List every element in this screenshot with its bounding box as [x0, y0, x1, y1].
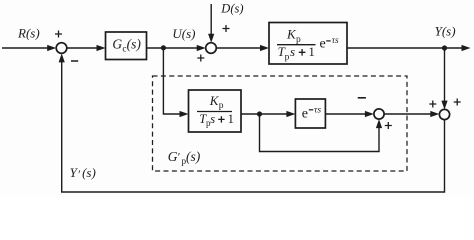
svg-text:′: ′ [78, 167, 81, 181]
svg-text:D(s): D(s) [220, 1, 243, 15]
svg-text:(s): (s) [186, 149, 201, 164]
svg-text:Y(s): Y(s) [435, 24, 456, 39]
svg-text:G: G [112, 37, 122, 52]
svg-text:e: e [320, 36, 326, 51]
svg-text:1: 1 [308, 44, 315, 59]
svg-text:τs: τs [332, 36, 339, 46]
svg-text:τs: τs [314, 105, 321, 115]
svg-text:p: p [296, 35, 301, 45]
svg-text:′: ′ [178, 150, 181, 164]
svg-text:R(s): R(s) [17, 26, 40, 41]
svg-text:(s): (s) [82, 165, 96, 180]
svg-text:p: p [285, 52, 290, 62]
svg-text:(s): (s) [127, 37, 142, 52]
svg-text:1: 1 [228, 112, 234, 126]
svg-text:e: e [302, 107, 308, 122]
svg-text:s: s [290, 44, 295, 59]
svg-text:p: p [219, 101, 224, 111]
svg-text:s: s [210, 112, 215, 126]
svg-text:G: G [168, 149, 178, 164]
svg-text:U(s): U(s) [172, 26, 195, 41]
